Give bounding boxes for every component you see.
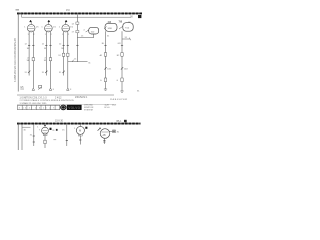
wire: cloud M1 pin L-bend to feed — [77, 34, 93, 38]
arrow marker right of motor M10 — [85, 127, 87, 129]
wire: pump M11 drop — [103, 138, 105, 144]
wire: sensor B1 drop with resistor — [44, 136, 46, 148]
pump M11 (round) — [100, 129, 110, 139]
label 15 page2 — [62, 129, 65, 131]
tick mark above bus start — [16, 9, 20, 11]
wire colour labels row 1 — [25, 43, 122, 50]
wire: motor M10 drop — [79, 136, 81, 145]
wire: page 2 feed stub — [22, 127, 31, 131]
svg-text:1 IGNITION COIL CYL 1-3: 1 IGNITION COIL CYL 1-3 — [20, 97, 48, 99]
wire: pump link to box — [110, 130, 113, 132]
svg-text:3 1995 VOLVO CAR CORPORATION A: 3 1995 VOLVO CAR CORPORATION AB — [14, 38, 17, 82]
ground terminal bottom left — [20, 87, 24, 89]
svg-text:15-8 B 4 3-27 4/52: 15-8 B 4 3-27 4/52 — [110, 99, 128, 101]
control module cloud M2 — [104, 23, 117, 31]
wire: coil T2 pin 1 — [45, 32, 47, 76]
wire: feed drop from bus — [76, 14, 78, 61]
splice junctions row 3 — [25, 67, 129, 82]
svg-text:MODULE IGNITION 95: MODULE IGNITION 95 — [51, 100, 75, 102]
wire: left frame border — [17, 12, 19, 91]
dark marker 2 — [56, 129, 58, 131]
svg-text:2 4/12: 2 4/12 — [55, 97, 62, 99]
arrow into pump M11 — [98, 128, 101, 131]
caption line 1 — [20, 96, 88, 99]
svg-text:2 POWER STAGE 4 CONTROL: 2 POWER STAGE 4 CONTROL — [20, 99, 52, 102]
svg-text:SYSTEM: SYSTEM — [84, 109, 93, 111]
svg-text:B 5-0: B 5-0 — [105, 107, 111, 109]
separator line — [17, 94, 114, 96]
wire: link bar — [68, 59, 92, 65]
caption line 3 — [20, 102, 48, 105]
svg-text:2/31/5A M 1: 2/31/5A M 1 — [75, 96, 88, 99]
wire: dashed supply bus 30 — [17, 12, 142, 14]
dash mark mid — [53, 139, 56, 141]
wire: coil T3 pin 2 — [67, 32, 69, 88]
left margin rotated copyright text — [14, 38, 17, 82]
splice label on feed wire — [72, 30, 79, 33]
control module cloud M3 — [119, 23, 133, 32]
svg-text:AB: AB — [103, 134, 107, 137]
VOLVO logo ellipse — [60, 105, 66, 111]
wire: branch to node 31 — [122, 37, 131, 40]
footer page-index boxes — [18, 105, 60, 109]
svg-text:15 II 30: 15 II 30 — [55, 120, 64, 123]
ground bar under M3 wire — [120, 91, 123, 92]
arrow marker right of sensor B1 — [50, 128, 56, 132]
ignition coil T2 — [41, 20, 56, 36]
connector ticks row 1 on wires — [28, 44, 123, 46]
wire: cloud M2 pin drop — [106, 31, 111, 89]
ground bar under M2 wire — [104, 89, 107, 90]
wire: coil T1 pin 1 — [28, 32, 30, 76]
relay box K2 — [113, 130, 120, 134]
label above cloud M2 — [108, 20, 112, 24]
page 2 header label box — [117, 120, 127, 123]
svg-text:3 15 20 1 6 10 2 7: 3 15 20 1 6 10 2 7 — [19, 108, 56, 110]
page 2 header text — [55, 120, 64, 123]
ignition coil T3 — [59, 20, 74, 36]
ignition coil T1 — [24, 20, 39, 36]
bus end label 30 — [130, 15, 141, 18]
wire: coil T2 pin 2 — [50, 32, 52, 88]
motor M10 (round) — [74, 125, 84, 136]
caption line 2 — [20, 99, 129, 102]
wire: page 2 inner left frame — [21, 125, 23, 150]
node label right bottom — [137, 90, 140, 92]
wire: page 2 dashed supply bus — [17, 123, 141, 125]
bus end sub label — [128, 22, 131, 24]
wire: drop A with tick — [30, 125, 35, 146]
title text above bus — [66, 9, 70, 12]
wire: 15 feed line — [22, 13, 132, 17]
svg-text:M: M — [79, 129, 81, 133]
svg-text:15 I: 15 I — [66, 9, 70, 12]
ground arrow under T1 pin2 — [32, 88, 35, 90]
wire: coil T1 pin 2 — [32, 32, 34, 88]
svg-text:7/8: 7/8 — [119, 19, 123, 23]
footer top rule — [17, 103, 115, 105]
ground post symbol — [38, 85, 41, 89]
ground arrow under T3 pin2 — [67, 88, 73, 91]
sensor B1 (round) — [39, 124, 49, 135]
page background — [0, 0, 150, 150]
ground arrow under T2 pin2 — [49, 88, 55, 91]
svg-text:VOLVO: VOLVO — [68, 106, 80, 110]
connector on feed wire — [72, 22, 79, 25]
label above cloud M3 — [119, 19, 123, 23]
wire: page 2 outer left frame — [17, 123, 19, 150]
wire: cloud M3 pin drop — [121, 31, 123, 91]
footer right text block — [84, 105, 117, 112]
pin label above sensor B1 — [37, 126, 39, 128]
wire: coil T3 pin 1 — [63, 32, 65, 76]
connector boxes row 2 — [27, 53, 124, 62]
wire: drop B with tick — [66, 125, 68, 146]
VOLVO logo bar — [67, 105, 82, 110]
control module cloud M1 — [83, 27, 98, 34]
